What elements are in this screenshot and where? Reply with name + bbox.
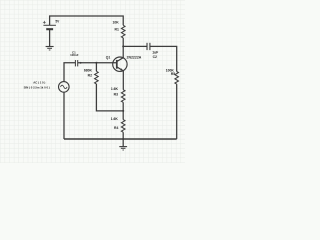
svg-text:R4: R4 [114,126,118,130]
svg-text:1.6K: 1.6K [111,117,119,121]
voltage source V2 AC sine [24,81,70,93]
svg-text:1uF: 1uF [152,51,158,55]
wire collector node to capacitor C2 [123,45,147,47]
wire battery V1 minus terminal to ground [49,29,51,46]
wire base node down to R2 [95,63,97,72]
resistor R4 1.6K [111,117,125,132]
wire emitter of Q1 down to R3 [122,71,124,90]
svg-text:1.6K: 1.6K [111,87,119,91]
ground (bottom, on rail) [119,147,127,150]
wire R5 bottom to bottom rail [176,84,178,139]
resistor R5 100K [166,69,179,85]
wire capacitor C2 to output resistor R5 [150,46,177,71]
svg-text:C2: C2 [153,55,157,59]
resistor R1 10K [112,21,125,38]
wire V2 top to capacitor C1 [64,63,75,82]
wire V2 bottom to bottom rail [63,92,65,139]
wire bottom rail [64,138,177,140]
ground (top-left, under battery) [46,46,54,50]
node emitter chain meets bottom rail [122,138,124,140]
svg-text:R2: R2 [88,74,92,78]
svg-text:2N2222A: 2N2222A [127,55,142,59]
svg-text:10K: 10K [112,21,119,25]
svg-text:SIN ( 0 2.5m 1k 0 0 ): SIN ( 0 2.5m 1k 0 0 ) [24,85,50,89]
wire R2 bottom to emitter divider node [96,84,123,111]
wire R3 bottom to emitter-divider node [122,102,124,119]
wire R4 bottom through rail to ground stub [122,132,124,146]
capacitor C1 100nF [70,50,79,66]
svg-text:R5: R5 [171,72,175,76]
resistor R2 680K [84,68,98,83]
svg-text:Q1: Q1 [106,55,111,59]
node base junction with R2 [95,62,97,64]
wire R1 bottom to collector of Q1 [122,38,124,58]
capacitor C2 1uF [147,43,158,59]
wire C1 to base of Q1 [78,62,117,64]
svg-text:AC ( 1 0 ): AC ( 1 0 ) [33,81,45,85]
svg-text:680K: 680K [84,68,93,72]
resistor R3 1.6K [111,87,125,102]
svg-text:R1: R1 [115,27,119,31]
wire top rail from battery V1 to R1 [50,16,124,25]
battery V1 [43,19,60,29]
node emitter divider junction [122,110,124,112]
node collector junction [122,45,124,47]
node polarity mark right of C1 [80,62,82,64]
transistor Q1 2N2222A [106,55,142,71]
svg-text:100nF: 100nF [70,53,79,57]
svg-text:R3: R3 [114,93,118,97]
